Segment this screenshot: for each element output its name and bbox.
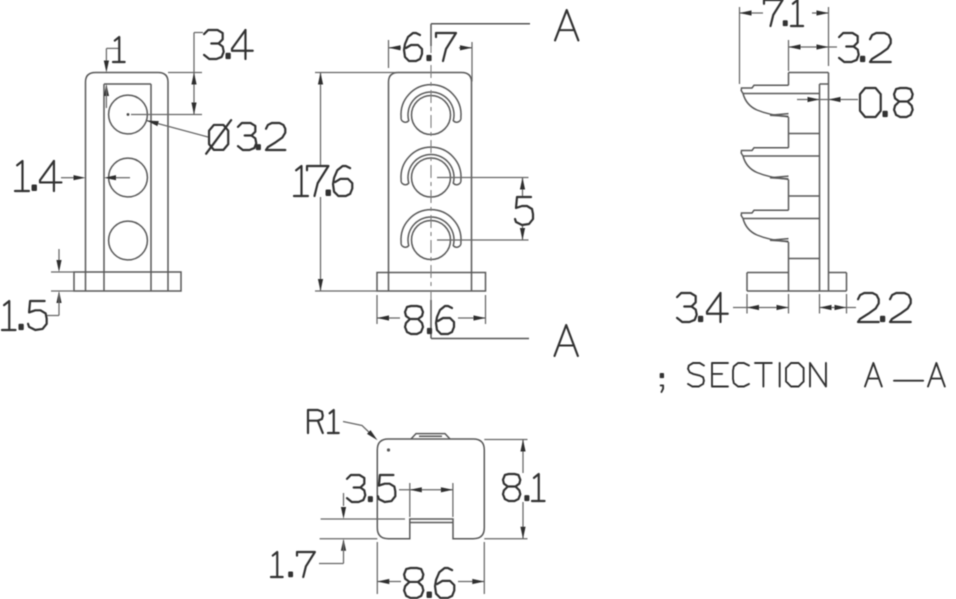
dim 1.7: arrows and leader: [319, 493, 346, 564]
dim 1.5: arrows and leader: [47, 249, 62, 316]
dim 6.7: text: [404, 33, 456, 61]
dim 5: extension lines: [437, 178, 529, 241]
dim dia 3.2: leader with arrow: [147, 121, 209, 138]
section cut line A-A: bottom arm: [431, 300, 529, 339]
section label A top: [555, 10, 578, 40]
dim R1: leader with arrow: [343, 422, 378, 441]
bottom view: corner mark dot: [387, 448, 390, 451]
dim 8.6 middle: extension lines: [377, 295, 486, 324]
section view: base flange: [747, 273, 847, 292]
bottom view: notch inner edge: [410, 522, 453, 524]
dim 3.2: extension line: [788, 40, 790, 71]
dim 3.2: dimension line and arrows: [789, 44, 838, 49]
dim 8.6 bottom: extension lines: [377, 542, 484, 594]
dim 3.4 section: extension lines: [747, 294, 789, 314]
section view: barb fin 3: [741, 210, 819, 242]
dim 17.6: text: [294, 166, 352, 196]
left view: hole circle middle: [109, 158, 148, 197]
dim 1.7: text: [271, 552, 315, 577]
label ; SECTION A-A: [661, 363, 945, 392]
section view: stem left face segments: [788, 117, 790, 291]
dim 8.1: text: [503, 474, 545, 501]
dim 1.7: extension lines: [320, 519, 405, 539]
section view: barb fin 2: [741, 148, 819, 180]
left view: hole circle top: [109, 95, 148, 134]
section view: barb fin 1: [741, 85, 819, 117]
middle view: base flange: [377, 273, 486, 292]
bottom view: body outline with notch: [377, 439, 484, 539]
dim 3.5: extension lines: [410, 483, 453, 517]
dim 0.8: dimension line and arrows: [797, 97, 858, 102]
bottom view: top tab: [411, 434, 450, 439]
dim 3.5: dimension line and arrows: [399, 487, 453, 492]
dim 0.8: text: [860, 88, 913, 117]
middle view: outer body outline: [389, 73, 472, 292]
dim 8.6 middle: dimension line and arrows: [377, 315, 486, 320]
dim 8.6 bottom: text: [404, 568, 454, 598]
middle view: clip feature bottom (circle + spring arc): [401, 210, 461, 260]
middle view: clip feature top (circle + spring arc): [401, 85, 461, 135]
dim 5: text: [515, 197, 533, 225]
dim 3.4 section: dimension line and arrows: [733, 305, 789, 310]
left view: base flange: [74, 272, 181, 291]
dim 8.1: dimension line and arrows: [520, 440, 525, 539]
dim 8.6 middle: text: [405, 306, 454, 334]
dim dia 3.2: text: [206, 120, 285, 154]
dim 17.6: dimension line and arrows: [318, 73, 323, 292]
section cut line A-A: centerline: [430, 40, 432, 320]
dim 7.1: text: [764, 0, 803, 26]
dim 1.5: text: [2, 301, 47, 330]
dim 2.2: extension lines: [820, 294, 847, 314]
left view: outer body outline: [86, 73, 169, 292]
section view: hole bottom edges: [789, 134, 820, 259]
dim 8.1: extension lines: [484, 440, 527, 539]
dim 1.4: dimension lines and arrows: [61, 175, 130, 180]
section view: inner wall strip: [820, 84, 829, 291]
dim 1: leader and arrows: [104, 48, 119, 108]
dim 3.4 section: text: [677, 293, 728, 322]
dim 3.4: dimension line and arrows: [191, 33, 203, 115]
dim 7.1: dimension line and arrows: [740, 10, 829, 15]
dim 3.5: text: [347, 475, 395, 502]
section cut line A-A: top arm: [431, 24, 530, 46]
section view: top block outline: [789, 73, 829, 292]
dim R1: text: [308, 410, 339, 433]
dim 1: text: [113, 37, 125, 62]
left view: hole circle bottom: [109, 221, 148, 260]
dim 8.6 bottom: dimension line and arrows: [377, 579, 484, 584]
dim 6.7: extension lines: [389, 40, 473, 82]
dim 1.5: extension lines: [51, 272, 74, 291]
dim 2.2: text: [858, 293, 911, 322]
dim 3.4: text: [204, 30, 253, 59]
dim 3.2: text: [839, 33, 891, 62]
dim 17.6: extension lines: [315, 73, 399, 292]
dim 5: dimension line and arrows: [520, 178, 525, 241]
middle view: clip feature middle (circle + spring arc): [401, 147, 461, 197]
dim 2.2: dimension line and arrows: [820, 305, 857, 310]
left view: inner cavity outline: [104, 84, 151, 291]
dim 6.7: dimension line and arrows: [389, 45, 473, 50]
dim 1.4: text: [15, 161, 61, 191]
dim 3.4: extension lines: [131, 73, 202, 115]
dim 7.1: extension lines: [740, 7, 829, 84]
section label A bottom: [555, 325, 578, 356]
